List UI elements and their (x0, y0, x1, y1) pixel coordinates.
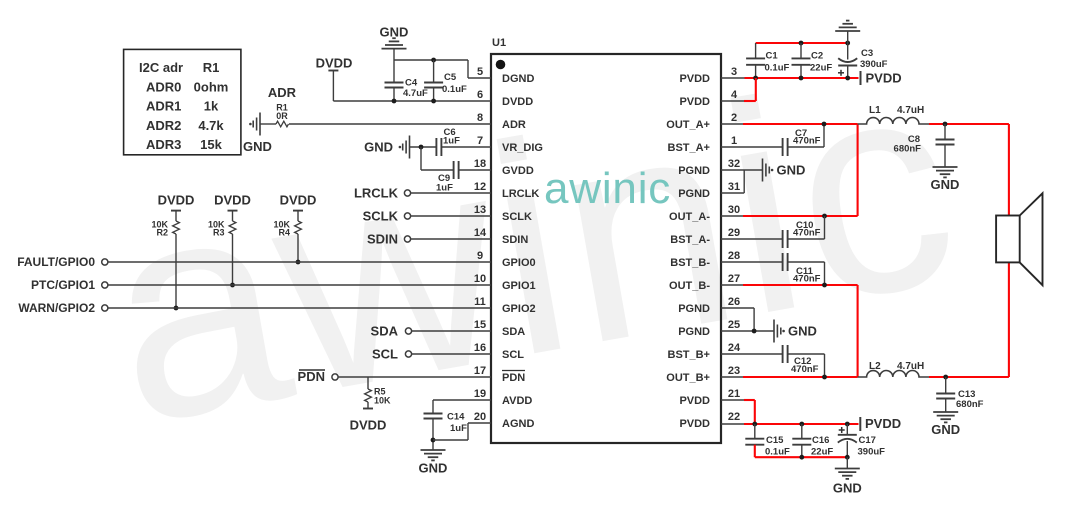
svg-text:11: 11 (474, 296, 486, 308)
svg-text:WARN/GPIO2: WARN/GPIO2 (18, 301, 95, 315)
capacitor C4 (393, 60, 395, 83)
svg-text:C5: C5 (444, 72, 457, 83)
svg-text:GPIO0: GPIO0 (502, 257, 536, 269)
wire pin 1 stub (721, 146, 783, 148)
svg-text:29: 29 (728, 227, 740, 239)
capacitor C7 (782, 138, 784, 156)
svg-text:GND: GND (364, 140, 393, 155)
capacitor C10 (782, 230, 784, 248)
svg-text:BST_B-: BST_B- (670, 257, 710, 269)
wire OUT_B- (pin 27, red) (721, 284, 743, 286)
wire pin 22 stub (721, 423, 744, 425)
wire down to C9 (420, 147, 422, 170)
ground symbol (C8) (933, 166, 958, 168)
capacitor C9 (453, 161, 455, 179)
wire ADR left segment (260, 123, 276, 125)
svg-text:470nF: 470nF (793, 136, 821, 147)
svg-text:SDIN: SDIN (502, 234, 528, 246)
junction C3 top (845, 41, 850, 46)
svg-text:390uF: 390uF (858, 447, 886, 458)
wire OUT_A+ to OUT_A- (red) (857, 124, 859, 216)
svg-text:22: 22 (728, 411, 740, 423)
capacitor C1 (755, 43, 757, 58)
resistor R1 (276, 121, 289, 127)
wire SCL (412, 353, 491, 355)
svg-text:1uF: 1uF (443, 136, 460, 147)
wire rail down to pin 5 (467, 60, 469, 78)
svg-text:LRCLK: LRCLK (502, 188, 539, 200)
svg-text:ADR: ADR (268, 85, 297, 100)
svg-text:PDN: PDN (502, 372, 525, 384)
terminal PVDD (bottom) (859, 417, 861, 431)
svg-text:ADR0: ADR0 (146, 79, 181, 94)
wire PVDD rail bottom (red) (744, 423, 859, 425)
wire pin 28 stub (721, 261, 783, 263)
wire pin 24 stub (721, 353, 783, 355)
svg-text:20: 20 (474, 411, 486, 423)
svg-text:15k: 15k (200, 137, 222, 152)
svg-text:6: 6 (477, 89, 483, 101)
svg-text:10K: 10K (374, 396, 391, 406)
junction dots PVDD rail (753, 76, 758, 81)
svg-text:BST_A-: BST_A- (670, 234, 710, 246)
svg-text:C4: C4 (405, 78, 418, 89)
wire pin 3 stub (721, 77, 745, 79)
svg-text:0.1uF: 0.1uF (442, 84, 467, 95)
svg-text:0.1uF: 0.1uF (765, 63, 790, 74)
svg-text:C16: C16 (812, 435, 829, 446)
svg-text:GND: GND (931, 422, 960, 437)
resistor R5 (367, 377, 369, 389)
svg-text:PDN: PDN (298, 369, 325, 384)
svg-text:OUT_A+: OUT_A+ (666, 119, 710, 131)
svg-text:PVDD: PVDD (679, 395, 710, 407)
wire C6 to pin 7 (441, 146, 491, 148)
svg-text:470nF: 470nF (793, 274, 821, 285)
svg-text:30: 30 (728, 204, 740, 216)
svg-text:GPIO1: GPIO1 (502, 280, 536, 292)
svg-text:C3: C3 (861, 48, 873, 59)
svg-text:25: 25 (728, 319, 740, 331)
svg-text:4.7k: 4.7k (198, 118, 224, 133)
wire OUT_B+ (pin 23, red) (721, 376, 743, 378)
svg-text:PVDD: PVDD (865, 416, 901, 431)
svg-text:C15: C15 (766, 435, 784, 446)
svg-text:13: 13 (474, 204, 486, 216)
capacitor C12 (782, 345, 784, 363)
svg-text:C17: C17 (859, 435, 876, 446)
IC U1 body (491, 54, 721, 443)
svg-text:27: 27 (728, 273, 740, 285)
DVDD bar (R5) (363, 408, 373, 410)
svg-text:GND: GND (419, 461, 448, 476)
svg-text:DVDD: DVDD (350, 418, 387, 433)
svg-text:U1: U1 (492, 37, 506, 49)
wire SDA (412, 330, 491, 332)
svg-text:GND: GND (777, 163, 806, 178)
svg-text:14: 14 (474, 227, 487, 239)
junction R3-GPIO1 (230, 283, 235, 288)
wire L1 to speaker (red) (929, 123, 1009, 125)
svg-text:1k: 1k (204, 99, 219, 114)
svg-text:1: 1 (731, 135, 737, 147)
svg-text:C1: C1 (766, 51, 779, 62)
C3 plus sign (838, 72, 844, 74)
junction C8 (943, 122, 948, 127)
svg-text:32: 32 (728, 158, 740, 170)
svg-text:DVDD: DVDD (280, 193, 317, 208)
terminal PVDD (top) (860, 71, 862, 85)
svg-text:PTC/GPIO1: PTC/GPIO1 (31, 278, 95, 292)
DVDD bar (R3) (228, 210, 238, 212)
wire AVDD (pin 19) (433, 399, 491, 401)
wire SCLK (411, 215, 491, 217)
svg-text:SDA: SDA (502, 326, 525, 338)
wire ADR to pin 8 (289, 123, 491, 125)
DVDD bar (R4) (293, 210, 303, 212)
wire gnd to rail (393, 49, 395, 60)
svg-text:PVDD: PVDD (679, 96, 710, 108)
junction C13 (943, 375, 948, 380)
svg-text:31: 31 (728, 181, 740, 193)
junction C2 top (799, 41, 804, 46)
svg-text:2: 2 (731, 112, 737, 124)
svg-text:18: 18 (474, 158, 486, 170)
wire C10 to OUT_A- (788, 238, 825, 240)
svg-text:GND: GND (931, 177, 960, 192)
svg-text:PGND: PGND (678, 303, 710, 315)
wire pin 25 stub (721, 330, 774, 332)
svg-text:9: 9 (477, 250, 483, 262)
capacitor C14 (424, 413, 443, 415)
inductor L1 (858, 118, 930, 125)
svg-text:ADR3: ADR3 (146, 137, 181, 152)
svg-text:GND: GND (833, 481, 862, 496)
junction C11 (822, 283, 827, 288)
wire AGND (pin 20) (433, 439, 468, 441)
inductor L2 (858, 371, 930, 377)
svg-text:16: 16 (474, 342, 486, 354)
junction C4 bottom (392, 99, 397, 104)
junction C14 bottom (431, 438, 436, 443)
junction C5 top (431, 58, 436, 63)
svg-text:22uF: 22uF (811, 447, 833, 458)
svg-text:390uF: 390uF (860, 59, 888, 70)
capacitor C13 (945, 377, 947, 394)
wire top gnd rail (red) (756, 42, 848, 44)
svg-text:4.7uF: 4.7uF (403, 88, 428, 99)
pin 1 marker dot (496, 60, 506, 70)
wire gnd top rail (394, 59, 468, 61)
svg-text:26: 26 (728, 296, 740, 308)
svg-text:4.7uH: 4.7uH (897, 361, 924, 372)
svg-text:680nF: 680nF (956, 399, 984, 410)
svg-text:OUT_A-: OUT_A- (669, 211, 710, 223)
ground symbol (VR_DIG) (409, 136, 411, 159)
svg-text:17: 17 (474, 365, 486, 377)
wire C9 to pin 18 (459, 169, 491, 171)
svg-text:PVDD: PVDD (679, 73, 710, 85)
wire OUT_B- to OUT_B+ (red) (857, 285, 859, 377)
svg-text:5: 5 (477, 66, 483, 78)
resistor R4 (297, 211, 299, 221)
ground symbol (PGND 25) (773, 320, 775, 343)
svg-text:1uF: 1uF (436, 183, 453, 194)
capacitor C6 (435, 138, 437, 156)
wire pin 26 to pin 25 (721, 307, 754, 309)
svg-text:8: 8 (477, 112, 483, 124)
svg-text:BST_A+: BST_A+ (668, 142, 711, 154)
svg-text:0.1uF: 0.1uF (765, 447, 790, 458)
ground symbol (ADR) (259, 113, 261, 136)
svg-text:22uF: 22uF (810, 63, 832, 74)
wire SDIN (411, 238, 491, 240)
C17 plus sign (839, 429, 845, 431)
svg-text:7: 7 (477, 135, 483, 147)
ground symbol (PGND 32) (762, 159, 764, 182)
wire C17 to ground (846, 457, 848, 468)
capacitor C3 (polarized) (847, 43, 849, 60)
wire OUT_A- (pin 30, red) (721, 215, 743, 217)
svg-text:24: 24 (728, 342, 741, 354)
svg-text:PGND: PGND (678, 188, 710, 200)
wire bottom gnd rail (red) (755, 456, 848, 458)
svg-text:DVDD: DVDD (502, 96, 533, 108)
ground symbol (C3) (847, 31, 849, 43)
DVDD supply bar (328, 70, 338, 72)
wire pin 32 stub (721, 169, 763, 171)
capacitor C11 (782, 253, 784, 271)
wire C12 to OUT_B+ (788, 353, 825, 355)
speaker horn (1020, 193, 1043, 285)
wire LRCLK (411, 192, 491, 194)
junction dots bottom gnd rail (799, 455, 804, 460)
svg-text:R2: R2 (156, 228, 168, 238)
svg-text:FAULT/GPIO0: FAULT/GPIO0 (17, 255, 95, 269)
svg-text:4: 4 (731, 89, 738, 101)
wire speaker top (red) (1008, 124, 1010, 216)
svg-text:C14: C14 (447, 412, 465, 423)
svg-text:DVDD: DVDD (158, 193, 195, 208)
junction VR_DIG (419, 145, 424, 150)
capacitor C5 (433, 60, 435, 83)
svg-text:4.7uH: 4.7uH (897, 105, 924, 116)
wire DVDD down (332, 71, 334, 102)
svg-text:12: 12 (474, 181, 486, 193)
svg-text:C2: C2 (811, 51, 823, 62)
wire L2 to speaker (red) (929, 376, 1009, 378)
wire FAULT/GPIO0 (108, 261, 491, 263)
svg-text:680nF: 680nF (894, 144, 922, 155)
svg-text:R1: R1 (203, 60, 220, 75)
svg-text:GND: GND (243, 139, 272, 154)
capacitor C16 (801, 424, 803, 439)
junction dots bottom rail (752, 422, 757, 427)
svg-text:R4: R4 (278, 228, 290, 238)
ground symbol (C13) (933, 411, 958, 413)
junction C10 (822, 214, 827, 219)
svg-text:PVDD: PVDD (866, 71, 902, 86)
wire pin 4 (red) (721, 100, 744, 102)
junction R2-GPIO2 (174, 306, 179, 311)
svg-text:DGND: DGND (502, 73, 534, 85)
junction C7 (822, 122, 827, 127)
wire PVDD rail (red) (745, 77, 859, 79)
capacitor C2 (800, 43, 802, 58)
svg-text:DVDD: DVDD (214, 193, 251, 208)
wire WARN/GPIO2 (108, 307, 491, 309)
svg-text:21: 21 (728, 388, 740, 400)
svg-text:OUT_B+: OUT_B+ (666, 372, 710, 384)
svg-text:1uF: 1uF (450, 423, 467, 434)
svg-text:AVDD: AVDD (502, 395, 532, 407)
svg-text:BST_B+: BST_B+ (668, 349, 711, 361)
svg-text:ADR1: ADR1 (146, 99, 181, 114)
svg-text:I2C adr: I2C adr (139, 60, 183, 75)
svg-text:15: 15 (474, 319, 486, 331)
svg-text:SCLK: SCLK (363, 209, 399, 224)
svg-text:DVDD: DVDD (316, 56, 353, 71)
junction C5 bottom (431, 99, 436, 104)
svg-text:0ohm: 0ohm (194, 79, 229, 94)
svg-text:PVDD: PVDD (679, 418, 710, 430)
svg-text:28: 28 (728, 250, 740, 262)
svg-text:SDIN: SDIN (367, 232, 398, 247)
svg-text:AGND: AGND (502, 418, 534, 430)
junction R4-GPIO0 (296, 260, 301, 265)
svg-text:GND: GND (788, 324, 817, 339)
svg-text:470nF: 470nF (791, 364, 819, 375)
resistor R2 (175, 211, 177, 221)
capacitor C15 (754, 424, 756, 439)
wire C11 to OUT_B- (788, 261, 825, 263)
wire pin 31 to pin 32 (721, 192, 744, 194)
wire OUT_A+ (pin 2, red) (721, 123, 743, 125)
svg-text:PGND: PGND (678, 165, 710, 177)
svg-text:3: 3 (731, 66, 737, 78)
wire DVDD rail to pin 6 (333, 100, 491, 102)
svg-text:0R: 0R (276, 111, 288, 121)
svg-text:GND: GND (380, 25, 409, 40)
svg-text:OUT_B-: OUT_B- (669, 280, 710, 292)
svg-text:SCLK: SCLK (502, 211, 532, 223)
svg-text:L1: L1 (869, 105, 881, 116)
svg-text:LRCLK: LRCLK (354, 186, 399, 201)
svg-text:GVDD: GVDD (502, 165, 534, 177)
I2C address table box (124, 49, 241, 154)
junction C12 (822, 375, 827, 380)
svg-text:GPIO2: GPIO2 (502, 303, 536, 315)
svg-text:SCL: SCL (502, 349, 524, 361)
wire PDN (338, 376, 491, 378)
svg-text:ADR: ADR (502, 119, 526, 131)
resistor R3 (232, 211, 234, 221)
svg-text:ADR2: ADR2 (146, 118, 181, 133)
wire PTC/GPIO1 (108, 284, 491, 286)
svg-text:SDA: SDA (371, 324, 399, 339)
svg-text:10: 10 (474, 273, 486, 285)
wire VR_DIG (410, 146, 437, 148)
capacitor C17 (polarized) (846, 424, 848, 435)
wire speaker bottom (red) (1008, 262, 1010, 377)
wire pin 21 (red) (721, 399, 744, 401)
ground symbol (C17) (835, 468, 860, 470)
svg-text:SCL: SCL (372, 347, 398, 362)
svg-text:19: 19 (474, 388, 486, 400)
svg-text:L2: L2 (869, 361, 881, 372)
capacitor C8 (944, 124, 946, 140)
svg-text:R3: R3 (213, 228, 225, 238)
ground symbol (top left) (382, 48, 407, 50)
wire pin 29 stub (721, 238, 783, 240)
junction PGND 25 (752, 329, 757, 334)
svg-text:VR_DIG: VR_DIG (502, 142, 543, 154)
DVDD bar (R2) (171, 210, 181, 212)
wire C7 to OUT_A+ (788, 146, 824, 148)
svg-text:PGND: PGND (678, 326, 710, 338)
ground symbol (C14) (421, 449, 446, 451)
svg-text:470nF: 470nF (793, 228, 821, 239)
svg-text:23: 23 (728, 365, 740, 377)
speaker box (996, 216, 1020, 263)
svg-text:awinic: awinic (544, 164, 671, 213)
